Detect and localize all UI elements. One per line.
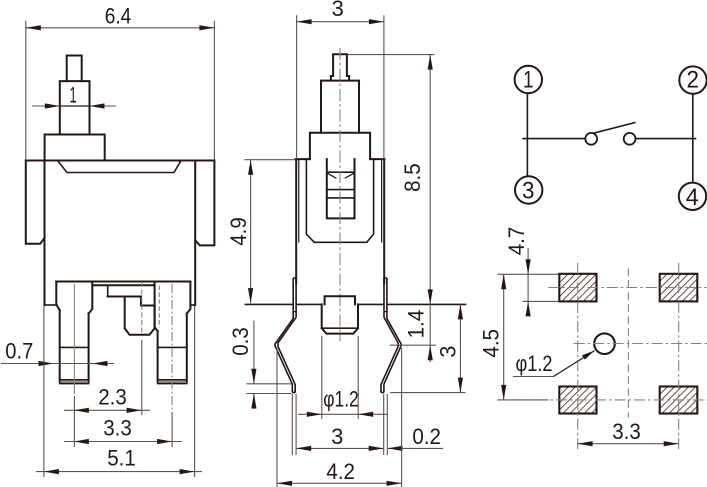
spring contact marks — [327, 172, 355, 178]
svg-text:2: 2 — [687, 66, 700, 93]
svg-text:φ1.2: φ1.2 — [323, 386, 359, 411]
svg-text:3: 3 — [435, 346, 460, 358]
svg-text:0.2: 0.2 — [412, 424, 441, 449]
side view seating plane — [245, 303, 465, 305]
front view plunger tier3 (base) — [45, 135, 105, 161]
side view plunger tier1 — [331, 54, 349, 80]
pad centerline bottom horizontal — [498, 399, 707, 401]
svg-text:4.7: 4.7 — [504, 227, 529, 256]
dimension 3.3 — [64, 412, 182, 447]
plunger hole — [594, 333, 615, 354]
wire 1-3 — [526, 94, 528, 177]
terminal 2 — [679, 66, 706, 93]
left terminal pin — [60, 310, 89, 383]
center contact pin — [125, 297, 155, 335]
svg-text:1: 1 — [69, 83, 76, 108]
dimension phi1.2 (hole) — [513, 351, 595, 377]
left terminal centerline — [73, 284, 75, 394]
dimension 0.3 — [228, 321, 292, 409]
svg-text:3: 3 — [522, 178, 535, 205]
svg-text:8.5: 8.5 — [400, 163, 425, 192]
svg-text:1.4: 1.4 — [404, 310, 429, 339]
pad centerline right vertical — [678, 263, 680, 450]
terminal 1 — [515, 66, 542, 94]
right bent leg — [381, 278, 401, 393]
wire 2-4 — [692, 94, 694, 182]
front view top recess — [58, 161, 182, 173]
dimension 2.3 — [64, 340, 150, 415]
svg-text:0.3: 0.3 — [228, 327, 253, 356]
dimension phi1.2 (side pin) — [298, 336, 388, 419]
dimension 0.2 — [387, 424, 443, 451]
front view body outline — [26, 161, 215, 306]
pad bottom-left — [559, 387, 596, 414]
terminal 3 — [515, 176, 542, 204]
left terminal flange — [56, 282, 92, 314]
front view plunger tier1 — [67, 56, 82, 82]
contact pole left — [585, 133, 597, 145]
dimension 0.7 — [1, 339, 114, 367]
side view body top — [296, 158, 385, 160]
board centerline horizontal — [574, 343, 707, 345]
svg-text:4: 4 — [686, 184, 699, 211]
wire contact to right — [636, 138, 696, 140]
terminal top bar — [56, 282, 190, 286]
side view inner cavity — [306, 159, 373, 242]
dimension 4.9 — [226, 160, 296, 303]
center pin hidden centerline — [141, 282, 143, 336]
front view body bottom edge — [45, 304, 196, 306]
movable contact band — [327, 190, 355, 198]
svg-text:3: 3 — [332, 0, 344, 21]
svg-text:0.7: 0.7 — [5, 339, 33, 364]
dimension 1 (plunger) — [32, 83, 116, 109]
dimension 3 (top middle) — [297, 0, 384, 159]
svg-text:3.3: 3.3 — [103, 415, 132, 440]
pad top-left — [559, 274, 596, 302]
svg-text:4.9: 4.9 — [226, 217, 251, 246]
contact pole right — [624, 133, 636, 145]
svg-text:6.4: 6.4 — [105, 3, 132, 28]
wire left to contact — [523, 138, 585, 140]
right flange hidden edge — [158, 286, 160, 328]
side view plunger tier3 — [310, 133, 370, 159]
side view body outer walls — [296, 159, 384, 283]
terminal 4 — [679, 183, 706, 211]
pad centerline left vertical — [577, 263, 579, 450]
svg-text:1: 1 — [523, 66, 534, 93]
dimension 3.3 (pcb) — [578, 419, 679, 446]
center terminal pin (side) — [322, 296, 358, 333]
dimension 5.1 — [36, 306, 202, 477]
pad centerline top horizontal — [548, 287, 707, 289]
svg-text:φ1.2: φ1.2 — [516, 351, 553, 376]
dimension 3 (right side) — [390, 304, 466, 392]
side view plunger slot — [327, 159, 355, 218]
svg-text:3.3: 3.3 — [612, 419, 641, 444]
switch lever — [595, 123, 635, 133]
svg-text:5.1: 5.1 — [107, 445, 136, 470]
side view plunger tier2 — [321, 81, 359, 133]
side view centerline — [339, 48, 341, 341]
dimension 4.7 — [504, 227, 531, 317]
dimension 8.5 — [347, 55, 434, 305]
pad bottom-right — [660, 387, 698, 414]
dimension 4.2 — [277, 348, 402, 487]
dimension 4.5 — [478, 274, 558, 400]
right terminal pin — [158, 314, 187, 384]
svg-text:2.3: 2.3 — [98, 384, 127, 409]
right terminal centerline — [171, 284, 173, 410]
right terminal flange — [155, 282, 191, 332]
svg-text:4.5: 4.5 — [478, 329, 503, 358]
dimension 3 (bottom middle) — [292, 394, 387, 455]
svg-text:4.2: 4.2 — [326, 459, 355, 484]
front view plunger tier2 — [60, 81, 90, 134]
left bent leg — [275, 278, 297, 393]
dimension 1.4 — [390, 304, 436, 362]
pad top-right — [660, 274, 698, 302]
svg-text:3: 3 — [331, 424, 343, 449]
dimension 6.4 — [26, 3, 215, 160]
board centerline vertical — [627, 268, 629, 418]
center contact plate — [108, 285, 155, 305]
